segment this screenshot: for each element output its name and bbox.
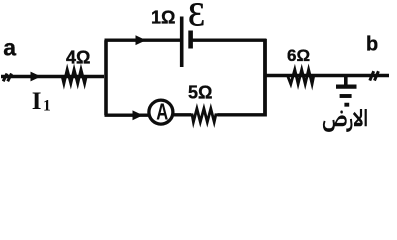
ground label (Arabic al-ard) traced outline	[323, 109, 367, 132]
ammeter U1 circle	[149, 100, 173, 124]
resistor R 5ohm	[190, 109, 218, 122]
ground bar 3	[344, 103, 349, 107]
resistor R 6ohm	[285, 70, 317, 85]
svg-text:5Ω: 5Ω	[188, 83, 212, 103]
ground bar 1	[336, 84, 357, 88]
current arrow I1 on main wire	[31, 72, 42, 82]
wire: right junction vertical	[263, 39, 267, 117]
wire: 5ohm to right junction	[218, 113, 267, 116]
arrow on top branch	[136, 35, 147, 45]
svg-text:1Ω: 1Ω	[151, 7, 175, 27]
svg-text:6Ω: 6Ω	[287, 46, 310, 65]
arrow on bottom branch	[133, 110, 144, 120]
wire: left junction vertical	[104, 40, 108, 115]
svg-text:Ɛ: Ɛ	[188, 0, 205, 34]
wire: left main from terminal a to left junction	[1, 75, 104, 78]
wire: top branch left segment	[105, 39, 181, 42]
svg-text:b: b	[366, 34, 378, 56]
resistor R 4ohm	[60, 69, 90, 83]
battery cell: short plate	[188, 31, 193, 49]
wire: bottom branch left segment to ammeter	[105, 113, 149, 116]
terminal marks at b (double slash)	[370, 71, 379, 80]
wire: right main exit from junction	[264, 74, 389, 77]
svg-text:A: A	[156, 98, 168, 124]
svg-text:4Ω: 4Ω	[66, 47, 90, 67]
svg-text:I: I	[32, 88, 42, 115]
ground bar 2	[340, 94, 352, 98]
wire: top branch right segment	[191, 39, 266, 42]
battery cell: long plate	[180, 17, 184, 68]
svg-text:a: a	[3, 34, 16, 60]
svg-text:1: 1	[43, 97, 51, 114]
terminal marks at a (double slash)	[3, 74, 11, 82]
wire: ammeter to 5ohm resistor	[174, 113, 192, 116]
ground tap wire	[344, 76, 348, 86]
